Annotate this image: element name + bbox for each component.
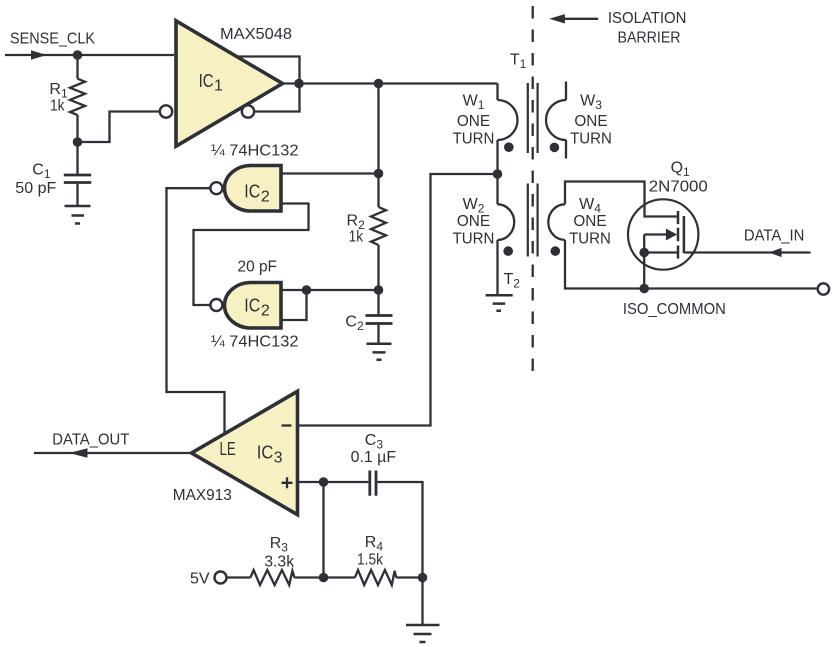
- junction dot Q1 source to ISO_COMMON: [639, 284, 649, 294]
- svg-text:2N7000: 2N7000: [649, 179, 708, 196]
- svg-text:1k: 1k: [349, 229, 364, 246]
- arrowhead Q1 body (points right): [666, 229, 677, 241]
- svg-text:LE: LE: [220, 438, 236, 459]
- transformer T1 core lines: [528, 83, 538, 153]
- ground below C2: [367, 344, 392, 360]
- wire IC3 inverting input from transformer tap: [298, 174, 498, 426]
- wire IC1 top tap to output loop: [237, 57, 300, 112]
- wire DATA_IN to Q1 gate: [684, 251, 811, 253]
- terminal ISO_COMMON open circle: [818, 283, 829, 294]
- capacitor C1: [64, 175, 91, 183]
- svg-text:2: 2: [261, 303, 270, 320]
- minus sign IC3 inverting input: [282, 424, 292, 426]
- junction dot output bus: [374, 79, 384, 89]
- svg-text:¼ 74HC132: ¼ 74HC132: [211, 334, 299, 351]
- NAND gate IC2b (left-pointing): [224, 283, 281, 329]
- winding W1 (one turn arc): [498, 100, 518, 140]
- terminal 5V open circle: [215, 572, 227, 584]
- wire W3 bottom stub: [565, 140, 567, 159]
- wire C2 to ground: [377, 324, 379, 344]
- wire IC1 output: [283, 82, 498, 84]
- junction dot Q1 source/body: [639, 248, 649, 258]
- svg-text:ISO_COMMON: ISO_COMMON: [623, 301, 726, 318]
- winding W2 (one turn arc): [498, 204, 515, 240]
- wire W4 top to Q1 drain: [565, 182, 677, 217]
- winding W3 (one turn arc): [546, 100, 566, 140]
- svg-text:1k: 1k: [50, 98, 65, 115]
- svg-text:TURN: TURN: [453, 130, 495, 147]
- svg-text:ONE: ONE: [457, 213, 490, 230]
- junction dot plus input node: [319, 477, 329, 487]
- svg-text:ONE: ONE: [573, 213, 606, 230]
- svg-text:TURN: TURN: [569, 231, 611, 248]
- svg-text:BARRIER: BARRIER: [618, 30, 681, 47]
- wire IC2a top input to bus: [281, 172, 379, 174]
- resistor R4: [355, 570, 396, 585]
- resistor R1: [70, 79, 85, 115]
- svg-text:ONE: ONE: [457, 113, 490, 130]
- svg-text:ONE: ONE: [574, 113, 607, 130]
- wire isolation barrier arrow line: [562, 18, 598, 20]
- svg-text:MAX913: MAX913: [173, 487, 232, 504]
- bubble IC1 inverting input: [160, 105, 172, 117]
- junction dot bus at IC2a input: [374, 169, 384, 179]
- arrowhead SENSE_CLK (points right): [31, 50, 47, 60]
- NAND gate IC2a (left-pointing): [224, 166, 281, 212]
- wire plus node down to R3/R4 junction: [322, 482, 324, 578]
- wire IC2b bottom input tied: [281, 290, 307, 320]
- svg-text:SENSE_CLK: SENSE_CLK: [10, 31, 95, 48]
- svg-text:5V: 5V: [190, 571, 210, 588]
- svg-text:TURN: TURN: [570, 130, 612, 147]
- svg-text:ISOLATION: ISOLATION: [608, 10, 687, 27]
- capacitor C2: [366, 316, 393, 324]
- wire SENSE_CLK input: [5, 54, 174, 56]
- svg-text:20 pF: 20 pF: [238, 259, 278, 276]
- svg-text:IC: IC: [244, 295, 260, 316]
- resistor R3: [250, 570, 294, 585]
- wire C3 right side down to R4 right: [377, 482, 422, 578]
- resistor R2: [371, 207, 386, 245]
- junction dot transformer center tap: [493, 169, 503, 179]
- wire IC2a bottom input from IC2b output: [194, 204, 309, 306]
- svg-text:TURN: TURN: [453, 231, 495, 248]
- arrowhead DATA_OUT (points left): [69, 448, 88, 458]
- svg-text:¼ 74HC132: ¼ 74HC132: [211, 143, 299, 160]
- phase dot W3: [550, 143, 560, 153]
- svg-text:3: 3: [274, 449, 283, 466]
- winding W4 (one turn arc): [548, 204, 565, 240]
- wire R1 bottom to C1: [76, 115, 78, 175]
- junction dot IC2b tied inputs: [302, 285, 312, 295]
- transistor Q1 gate bar: [683, 216, 686, 253]
- ground below C1: [65, 206, 91, 224]
- svg-text:3.3k: 3.3k: [264, 554, 295, 571]
- svg-text:50 pF: 50 pF: [15, 180, 56, 197]
- svg-text:IC: IC: [257, 442, 274, 463]
- capacitor C3: [370, 471, 376, 496]
- bubble IC1 inverting output: [242, 105, 254, 117]
- junction dot R2/C2/IC2b node: [374, 285, 384, 295]
- junction dot R1/C1 node: [73, 137, 83, 147]
- wire node to IC1 inverting input: [78, 112, 160, 143]
- phase dot W2: [503, 246, 513, 256]
- wire bus IC1 output down to R2: [377, 84, 379, 208]
- comparator IC3 MAX913 triangle (left-pointing): [192, 391, 298, 514]
- bubble IC2b output: [210, 299, 222, 311]
- wire DATA_OUT from IC3: [34, 452, 192, 454]
- wire Q1 source lead: [644, 251, 677, 253]
- isolation barrier dashed line: [532, 6, 534, 382]
- svg-text:1.5k: 1.5k: [357, 552, 384, 569]
- wire W2 bottom to ground: [496, 240, 498, 295]
- wire IC2a output feedback to IC3 LE: [167, 188, 225, 434]
- svg-text:1: 1: [214, 77, 223, 94]
- wire R2 to C2 node: [377, 245, 379, 316]
- transformer T2 core lines: [528, 184, 538, 257]
- transistor Q1 channel segments: [677, 211, 680, 259]
- svg-text:MAX5048: MAX5048: [220, 26, 292, 43]
- plus sign IC3 non-inverting input: [282, 477, 293, 488]
- svg-text:2: 2: [261, 189, 270, 206]
- winding W3 top stub: [565, 82, 567, 101]
- junction dot IC1 output loop: [294, 79, 304, 89]
- wire R1 top stub: [76, 55, 78, 79]
- phase dot W4: [551, 246, 561, 256]
- junction dot R3/R4/plus node: [319, 573, 329, 583]
- wire 5V to R3: [227, 576, 251, 578]
- wire IC3 plus input: [298, 481, 369, 483]
- junction dot SENSE_CLK/R1: [73, 50, 83, 60]
- svg-text:IC: IC: [199, 70, 214, 91]
- wire IC1 output to W1 top: [496, 84, 498, 101]
- wire W4 bottom to ISO_COMMON: [565, 240, 818, 289]
- wire R4 to ground corner: [396, 578, 422, 626]
- svg-text:0.1 µF: 0.1 µF: [351, 449, 397, 466]
- wire C1 to ground: [76, 183, 78, 207]
- arrowhead isolation barrier (points left): [549, 14, 565, 23]
- wire W1 bottom to tap: [496, 140, 498, 204]
- phase dot W1: [504, 142, 514, 152]
- svg-text:IC: IC: [244, 181, 260, 202]
- wire R3 to junction: [294, 576, 355, 578]
- transistor Q1 circle: [628, 199, 698, 269]
- wire Q1 body arrow line: [644, 233, 667, 235]
- wire IC2b top input to bus: [281, 289, 379, 291]
- ground below W2: [486, 295, 513, 310]
- ground below R4: [406, 625, 440, 642]
- bubble IC2a output: [210, 182, 222, 194]
- junction dot R4/C3 node: [418, 573, 428, 583]
- svg-text:DATA_IN: DATA_IN: [744, 228, 805, 245]
- op-amp IC1 MAX5048 driver triangle: [176, 21, 283, 146]
- svg-text:DATA_OUT: DATA_OUT: [52, 431, 129, 448]
- arrowhead DATA_IN (points left): [769, 248, 782, 257]
- wire Q1 body-source to ISO_COMMON: [643, 235, 645, 289]
